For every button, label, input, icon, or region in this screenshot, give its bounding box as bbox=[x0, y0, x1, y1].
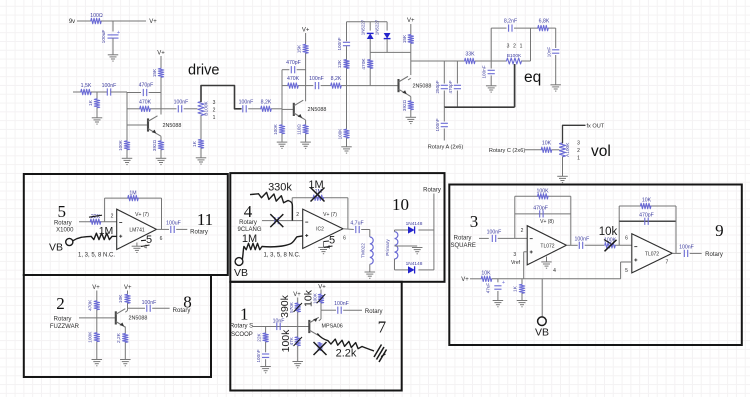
svg-text:3: 3 bbox=[577, 140, 580, 146]
resistor 100K crossed boxD bbox=[313, 292, 326, 304]
svg-text:470pF: 470pF bbox=[448, 80, 453, 93]
wire 100nF to rotary A label bbox=[443, 129, 445, 141]
svg-text:8: 8 bbox=[183, 293, 192, 312]
capacitor 100uF output boxA bbox=[166, 220, 181, 233]
svg-text:2,2K: 2,2K bbox=[116, 332, 122, 343]
label 2 bbox=[56, 294, 65, 313]
VB source boxB bbox=[234, 258, 248, 279]
label 1 bbox=[240, 305, 249, 324]
wire tone bottom rail bbox=[444, 106, 514, 108]
wire feedback left boxA bbox=[105, 198, 162, 222]
capacitor 470pF tone bbox=[448, 80, 461, 93]
label 9CLANG bbox=[237, 227, 261, 233]
wire eq pot right lead bbox=[522, 60, 531, 62]
capacitor 100nF out stage1 bbox=[174, 99, 189, 112]
svg-text:100nF: 100nF bbox=[102, 83, 117, 89]
svg-text:470K: 470K bbox=[139, 99, 152, 105]
ground 10nF eq bbox=[550, 85, 561, 91]
svg-text:100nF: 100nF bbox=[575, 237, 590, 243]
wire V+ to 15K stage2 bbox=[305, 33, 307, 44]
capacitor 10nF boxD bbox=[273, 318, 285, 330]
wire V+ node down to C100uF bbox=[112, 21, 114, 32]
ground op-amp U1 bbox=[132, 243, 143, 253]
resistor 15K stage1 bbox=[152, 68, 164, 77]
wire 100K to ground bbox=[126, 150, 128, 158]
svg-text:4: 4 bbox=[144, 244, 147, 250]
ground emitter Q3 bbox=[406, 117, 417, 123]
svg-text:3: 3 bbox=[513, 252, 516, 258]
svg-text:15K: 15K bbox=[152, 68, 158, 77]
svg-text:Rotary: Rotary bbox=[239, 220, 257, 226]
ground eq shunt bbox=[486, 86, 497, 92]
svg-text:V+ (7): V+ (7) bbox=[135, 212, 149, 218]
ground drive pot bbox=[196, 158, 207, 164]
svg-text:1M: 1M bbox=[308, 179, 323, 191]
wire V+ to R15K bbox=[160, 56, 162, 68]
wire 470K3 leads bbox=[369, 52, 371, 85]
wire V+ to 570K boxD bbox=[297, 298, 299, 304]
svg-text:1K: 1K bbox=[192, 140, 198, 147]
wire stage1 input bbox=[73, 91, 81, 93]
resistor 100K feedback op1 bbox=[536, 189, 549, 199]
resistor 470K feedback stage3 bbox=[361, 58, 373, 70]
wire 4.7uF to TM022 bbox=[361, 230, 370, 238]
svg-text:100K: 100K bbox=[118, 139, 123, 151]
svg-text:6: 6 bbox=[343, 236, 346, 242]
ground 1K boxE bbox=[517, 301, 528, 307]
svg-text:470K: 470K bbox=[361, 58, 367, 70]
zener diode 1N5227 left bbox=[361, 19, 374, 39]
svg-text:1M: 1M bbox=[99, 225, 114, 237]
resistor 100ohm bbox=[90, 13, 103, 24]
svg-text:1M: 1M bbox=[242, 233, 257, 245]
resistor 47K crossed boxD bbox=[289, 336, 302, 346]
wire 100nF out boxC bbox=[152, 307, 169, 309]
resistor 1K input bias bbox=[88, 99, 100, 108]
svg-text:V+ (8): V+ (8) bbox=[540, 219, 554, 225]
svg-text:10K: 10K bbox=[642, 198, 652, 204]
wire primary top to diode1 bbox=[395, 230, 409, 232]
wire output boxA bbox=[157, 228, 170, 230]
svg-text:B100K: B100K bbox=[204, 101, 210, 116]
svg-text:470K: 470K bbox=[287, 76, 300, 82]
svg-text:V+: V+ bbox=[407, 18, 415, 24]
wire 392 Q3 to ground bbox=[410, 110, 412, 117]
label 1,3,5,8 N.C. boxB bbox=[263, 253, 300, 259]
wire 1M to opamp plus bbox=[112, 235, 117, 237]
svg-text:100nF: 100nF bbox=[174, 99, 189, 105]
wire rotary rail boxB bbox=[418, 194, 434, 270]
svg-text:10k: 10k bbox=[599, 226, 618, 238]
resistor 1.5K bbox=[81, 83, 92, 95]
wire base bias 100K bbox=[126, 125, 128, 141]
wire primary bottom to diode2 bbox=[395, 259, 409, 270]
svg-text:470pF: 470pF bbox=[639, 213, 654, 219]
wire V+ to 100K boxD bbox=[320, 290, 322, 295]
wire eq pot right leg bbox=[530, 28, 532, 61]
svg-text:TL072: TL072 bbox=[540, 243, 554, 249]
svg-text:2: 2 bbox=[513, 44, 516, 50]
label Rotary (8) bbox=[173, 308, 191, 314]
wire feedback right boxA bbox=[161, 198, 163, 229]
transformer Primary bbox=[385, 232, 398, 259]
resistor 470K feedback stage1 bbox=[139, 99, 152, 111]
svg-text:2.2k: 2.2k bbox=[336, 348, 357, 360]
svg-text:10K: 10K bbox=[481, 270, 491, 276]
svg-text:Primary: Primary bbox=[385, 239, 391, 256]
svg-text:10K: 10K bbox=[118, 294, 124, 303]
wire R100 to V+ node bbox=[101, 20, 146, 22]
svg-text:Rotary: Rotary bbox=[423, 188, 441, 194]
crossed out emitter resistor boxD bbox=[314, 342, 327, 355]
label drive bbox=[188, 63, 219, 79]
svg-text:100nF: 100nF bbox=[482, 65, 487, 78]
wire vol pot to fx OUT bbox=[563, 125, 586, 143]
resistor 33K bbox=[465, 52, 476, 64]
wire base node to 470K bbox=[127, 108, 140, 110]
wire pot 1K to ground bbox=[200, 148, 202, 157]
svg-text:330k: 330k bbox=[268, 182, 292, 194]
svg-text:fx OUT: fx OUT bbox=[587, 123, 605, 129]
label 7 bbox=[378, 318, 387, 337]
wire 100nF out to drive pot wiper bbox=[184, 108, 198, 110]
capacitor 100uF polarized bbox=[101, 30, 120, 44]
wire 100nF to opamp boxE bbox=[498, 237, 528, 239]
svg-text:100nF: 100nF bbox=[679, 244, 694, 250]
wire plus input op2 bbox=[621, 262, 632, 279]
resistor 22K boxD bbox=[256, 332, 268, 342]
svg-text:Rotary C (2x6): Rotary C (2x6) bbox=[489, 148, 526, 154]
ground 47uF boxE bbox=[493, 301, 504, 307]
svg-text:FUZZWAR: FUZZWAR bbox=[50, 324, 80, 330]
hand wire VB to 1M boxA bbox=[73, 236, 91, 240]
svg-text:15K: 15K bbox=[297, 44, 303, 53]
resistor 2.2K boxC bbox=[116, 332, 128, 343]
svg-text:1: 1 bbox=[577, 155, 580, 161]
svg-text:drive: drive bbox=[188, 63, 219, 79]
wire input boxA bbox=[79, 221, 117, 223]
wire C100uF to ground bbox=[112, 38, 114, 54]
svg-text:100K: 100K bbox=[273, 123, 278, 135]
ground 2.2K boxC bbox=[120, 360, 131, 366]
svg-text:X1000: X1000 bbox=[56, 228, 74, 234]
wire feedback left op1 bbox=[514, 196, 516, 238]
pin4 label U1 bbox=[144, 244, 147, 250]
svg-text:V+: V+ bbox=[124, 285, 132, 291]
svg-text:LM741: LM741 bbox=[129, 227, 145, 233]
svg-text:Rotary: Rotary bbox=[365, 309, 383, 315]
svg-text:470K: 470K bbox=[87, 299, 93, 311]
label 8 bbox=[183, 293, 192, 312]
wire drive pot bottom bbox=[200, 116, 202, 140]
svg-text:4: 4 bbox=[553, 268, 556, 274]
wire input boxB bbox=[262, 220, 303, 222]
resistor 10K vref boxE bbox=[481, 270, 492, 281]
resistor 12K bbox=[337, 59, 349, 69]
ground input bias bbox=[92, 118, 103, 124]
V+ label boxC right bbox=[124, 285, 132, 291]
diode 1N4148 top bbox=[406, 221, 423, 234]
wire drive pot top route to stage2 bbox=[201, 86, 241, 109]
hand resistor 330k boxB bbox=[250, 182, 292, 221]
wire V+ to 10K boxC bbox=[127, 291, 129, 295]
wire feedback right op1 bbox=[570, 196, 572, 245]
wire collector node boxC bbox=[128, 307, 146, 309]
V+ label boxE bbox=[461, 277, 469, 283]
wire 8.2K to clip node bbox=[342, 85, 347, 87]
label Rotary (10) top bbox=[423, 188, 441, 194]
V+ label stage1 bbox=[157, 51, 165, 57]
wire zener top rail bbox=[347, 22, 388, 41]
svg-text:Rotary S: Rotary S bbox=[230, 324, 253, 330]
wire V+ to 15K stage3 bbox=[410, 24, 412, 34]
wire feedback right op2 bbox=[675, 206, 677, 253]
capacitor 100nF out stage2 bbox=[309, 76, 324, 89]
resistor 470K boxC bbox=[87, 299, 99, 311]
ground emitter Q1 bbox=[156, 158, 167, 164]
wire 100nF to ground boxD bbox=[265, 359, 267, 366]
label 9 bbox=[715, 221, 724, 240]
op-amp U2 IC2 bbox=[296, 209, 346, 248]
svg-text:5: 5 bbox=[58, 202, 67, 221]
label 10 bbox=[392, 195, 409, 214]
wire vol pot to ground bbox=[562, 157, 564, 176]
svg-text:33K: 33K bbox=[465, 52, 475, 58]
label vol bbox=[591, 143, 611, 160]
capacitor 47uF boxE bbox=[486, 280, 506, 293]
svg-text:100nF: 100nF bbox=[256, 349, 261, 362]
svg-text:Rotary A (2x6): Rotary A (2x6) bbox=[428, 145, 464, 151]
svg-text:10: 10 bbox=[392, 195, 409, 214]
svg-text:9: 9 bbox=[715, 221, 724, 240]
wire collector out boxD bbox=[321, 309, 336, 311]
svg-text:1: 1 bbox=[240, 305, 249, 324]
svg-text:4,7uF: 4,7uF bbox=[350, 221, 363, 227]
ground base bias Q1 bbox=[122, 158, 133, 164]
resistor 10K boxC bbox=[118, 294, 130, 304]
capacitor 100nF mid boxE bbox=[575, 237, 590, 249]
wire input boxD bbox=[253, 326, 309, 328]
resistor 100K base Q1 bbox=[118, 139, 130, 151]
svg-text:VB: VB bbox=[49, 242, 63, 254]
svg-text:V+ (7): V+ (7) bbox=[323, 212, 337, 218]
label 3 bbox=[470, 212, 479, 231]
wire rail to 100nF rotary bbox=[443, 107, 445, 121]
svg-text:110Ω: 110Ω bbox=[297, 124, 302, 135]
potentiometer B100K eq bbox=[507, 44, 523, 65]
svg-text:100nF: 100nF bbox=[337, 37, 342, 50]
svg-text:VB: VB bbox=[234, 267, 248, 279]
svg-text:Rotary: Rotary bbox=[190, 229, 208, 235]
svg-text:Rotary: Rotary bbox=[54, 220, 72, 226]
wire 100nF to base node bbox=[111, 91, 127, 93]
svg-text:9v: 9v bbox=[69, 19, 75, 25]
svg-text:V+: V+ bbox=[92, 285, 100, 291]
svg-text:Rotary: Rotary bbox=[705, 252, 723, 258]
wire 470K2 to collector bbox=[298, 85, 305, 87]
wire eq node down to 100nF bbox=[490, 61, 492, 69]
wire 1K to ground boxE bbox=[521, 293, 523, 300]
wire eq top rail left bbox=[491, 27, 506, 29]
transistor Q4 2N5088 bbox=[116, 309, 148, 327]
box B border bbox=[230, 173, 444, 282]
wire primary center tap bbox=[395, 245, 418, 247]
svg-text:5: 5 bbox=[625, 268, 628, 274]
wire VB tap boxE bbox=[541, 279, 543, 317]
box E border bbox=[449, 185, 742, 346]
ground op-amp U2 bbox=[318, 241, 329, 254]
label X1000 bbox=[56, 228, 74, 234]
diode 1N4148 bottom bbox=[406, 261, 423, 274]
svg-text:SQUARE: SQUARE bbox=[451, 243, 476, 249]
wire emitter Q4 bbox=[124, 327, 126, 334]
wire emitter Q3 bbox=[408, 95, 411, 101]
wire 22K to 100nF boxD bbox=[265, 342, 267, 352]
VB source boxE bbox=[535, 317, 549, 339]
svg-text:B100K: B100K bbox=[507, 53, 522, 59]
wire input boxE bbox=[479, 237, 489, 239]
capacitor 100nF zener bbox=[337, 37, 350, 50]
hand label 10k boxE bbox=[599, 226, 618, 238]
svg-text:8,2K: 8,2K bbox=[331, 76, 342, 82]
wire collector Q3 bbox=[408, 78, 411, 80]
svg-text:Vref: Vref bbox=[511, 260, 521, 266]
resistor 570K crossed boxD bbox=[289, 301, 302, 313]
svg-text:2: 2 bbox=[56, 294, 65, 313]
wire 100nF to 8.2K bbox=[248, 108, 260, 110]
wire feedback rows op1 bbox=[515, 196, 571, 214]
svg-text:47uF: 47uF bbox=[486, 283, 491, 294]
svg-text:TL072: TL072 bbox=[645, 252, 659, 258]
svg-text:V+: V+ bbox=[149, 19, 157, 25]
resistor 22K crossed bbox=[89, 214, 102, 224]
capacitor 100nF input stage1 bbox=[102, 83, 117, 96]
wire zener bottom rail bbox=[370, 39, 411, 52]
svg-text:8,2K: 8,2K bbox=[261, 99, 272, 105]
potentiometer B100K drive bbox=[198, 100, 216, 121]
wire 470K to junction boxC bbox=[96, 310, 98, 333]
hand wire to hand ground boxD bbox=[362, 347, 374, 352]
wire 10K to collector boxC bbox=[127, 303, 129, 308]
svg-text:100K: 100K bbox=[87, 331, 93, 343]
hand resistor 1M boxA bbox=[91, 225, 113, 240]
svg-text:470pF: 470pF bbox=[533, 205, 548, 211]
ground power bbox=[108, 55, 119, 61]
VB source boxA bbox=[49, 238, 73, 253]
hand resistor 2.2k boxD bbox=[317, 334, 362, 360]
resistor 10K feedback op2 bbox=[640, 198, 651, 209]
label Rotary (11) bbox=[190, 229, 208, 235]
resistor 8.2K interstage23 bbox=[331, 76, 342, 88]
wire 9v to R 100ohm bbox=[77, 20, 91, 22]
wire vref rail boxE bbox=[492, 278, 621, 280]
svg-text:250pF: 250pF bbox=[435, 80, 440, 93]
wire base node to 470pF bbox=[127, 92, 141, 94]
capacitor 100nF input boxE bbox=[487, 229, 502, 242]
wire base2 to 470K bbox=[282, 85, 288, 87]
label Rotary C (2x6) bbox=[489, 148, 526, 154]
op-amp U4 TL072b bbox=[625, 234, 672, 274]
label Rotary 5 bbox=[230, 324, 253, 330]
resistor 1K drive pot bbox=[192, 139, 204, 148]
wire 100nF out right boxD bbox=[343, 309, 362, 311]
svg-text:Rotary: Rotary bbox=[54, 317, 72, 323]
wire junction to 47K boxD bbox=[297, 327, 299, 337]
capacitor 470pF feedback stage2 bbox=[286, 60, 301, 73]
wire 100K to opamp2 bbox=[615, 244, 632, 246]
wire feedback right boxB bbox=[347, 198, 349, 229]
wire base2 to 100K bbox=[281, 109, 283, 124]
svg-text:6: 6 bbox=[160, 236, 163, 242]
svg-text:2N5088: 2N5088 bbox=[129, 316, 148, 322]
capacitor 100nF eq shunt bbox=[482, 65, 495, 78]
wire 47uF drop bbox=[497, 279, 499, 283]
svg-text:1,5K: 1,5K bbox=[81, 83, 92, 89]
capacitor 470pF feedback op1 bbox=[533, 205, 548, 217]
wire plus input op1 bbox=[524, 252, 528, 279]
potentiometer A100K vol bbox=[560, 140, 581, 161]
svg-text:10nF: 10nF bbox=[273, 318, 285, 324]
svg-text:1K: 1K bbox=[513, 285, 519, 292]
label 4 bbox=[244, 202, 253, 221]
wire 1K drop boxE bbox=[521, 279, 523, 285]
resistor 1M feedback LM741 bbox=[128, 190, 139, 200]
wire collector2 to 100nF bbox=[306, 85, 314, 87]
wire 10K to vol pot bbox=[552, 149, 560, 151]
resistor 392ohm emitter Q3 bbox=[402, 99, 414, 111]
svg-text:8,2nF: 8,2nF bbox=[504, 19, 517, 25]
wire collector node stage2 bbox=[305, 53, 307, 101]
hand label 1M boxB bbox=[308, 179, 323, 191]
capacitor 100nF to rotary A bbox=[435, 118, 448, 131]
hand resistor 1M boxB bbox=[242, 233, 262, 250]
wire 22K drop boxD bbox=[265, 327, 267, 334]
label Rotary (2) bbox=[54, 317, 72, 323]
capacitor 10nF eq bbox=[546, 47, 559, 58]
transistor Q5 MPSA06 bbox=[309, 317, 342, 335]
wire collector to 100nF out bbox=[161, 108, 177, 110]
capacitor 8.2nF eq bbox=[504, 19, 517, 32]
wire 100K2 to ground bbox=[281, 134, 283, 142]
wire 470pF drop bbox=[456, 61, 458, 84]
wire 470pF to rail bbox=[456, 91, 458, 108]
wire 100K to ground boxC bbox=[96, 342, 98, 360]
label Rotary (9) bbox=[705, 252, 723, 258]
svg-text:eq: eq bbox=[524, 69, 541, 86]
ground op-amp U3 bbox=[541, 257, 552, 269]
wire 33K to eq node bbox=[475, 60, 506, 62]
label FUZZWAR bbox=[50, 324, 80, 330]
capacitor 100nF out boxD bbox=[334, 301, 349, 314]
svg-text:A100K: A100K bbox=[565, 142, 571, 157]
pin4 label U2 bbox=[327, 245, 330, 251]
svg-text:VB: VB bbox=[535, 327, 549, 339]
svg-text:1, 3, 5, 8 N.C.: 1, 3, 5, 8 N.C. bbox=[78, 253, 115, 259]
svg-text:V+: V+ bbox=[318, 284, 326, 290]
node stage1 bias junction wire bbox=[96, 92, 98, 99]
svg-text:392Ω: 392Ω bbox=[152, 139, 157, 151]
wire 470pF2 to collector bbox=[297, 69, 306, 71]
svg-text:100nF: 100nF bbox=[309, 76, 324, 82]
capacitor crossed out input boxB bbox=[270, 214, 283, 227]
resistor 100K boxC bbox=[87, 331, 99, 343]
svg-text:V+: V+ bbox=[302, 27, 310, 33]
svg-text:2: 2 bbox=[577, 148, 580, 154]
wire collector node stage3 bbox=[410, 44, 412, 76]
wire 1.5K to 100nF bbox=[91, 91, 107, 93]
svg-text:2N5088: 2N5088 bbox=[163, 123, 182, 129]
wire 470pF to collector bbox=[149, 92, 161, 94]
